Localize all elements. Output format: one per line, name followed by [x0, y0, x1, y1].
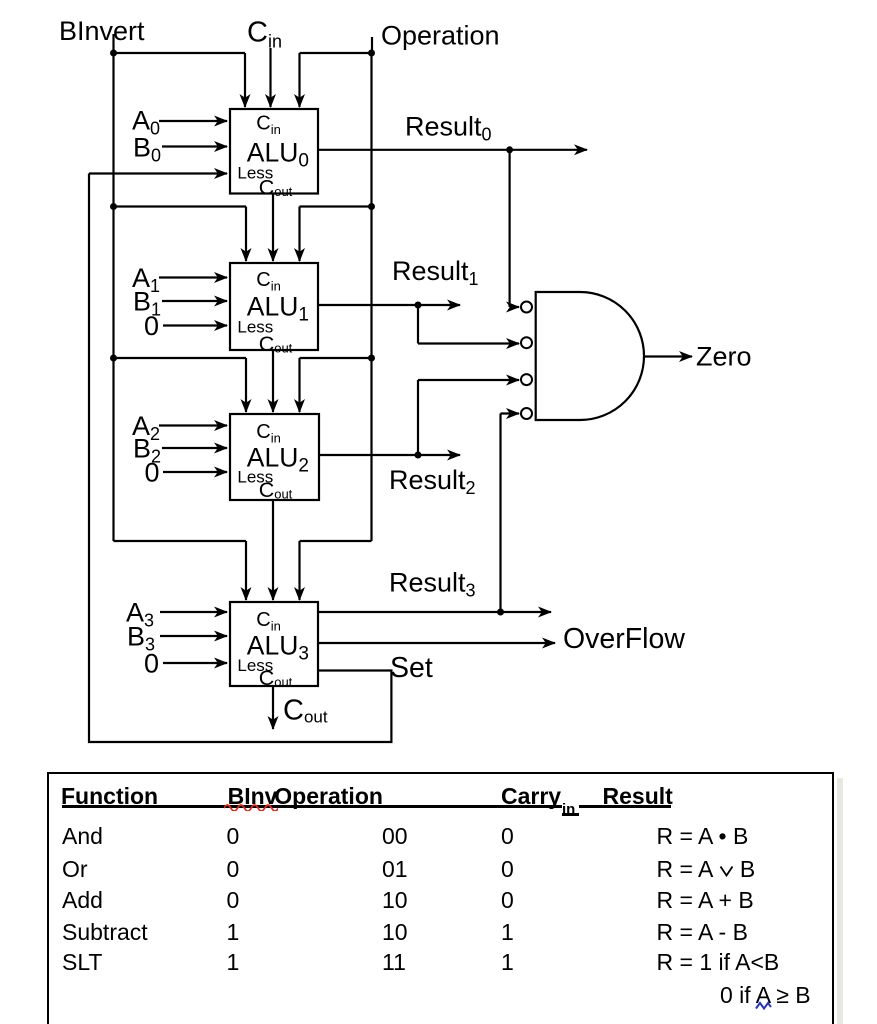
svg-text:Set: Set [390, 652, 433, 684]
svg-text:Result3: Result3 [389, 568, 476, 601]
svg-text:Result0: Result0 [405, 112, 492, 145]
svg-text:Cout: Cout [283, 695, 328, 727]
svg-text:Zero: Zero [696, 342, 752, 372]
svg-text:Operation: Operation [381, 21, 500, 51]
svg-text:OverFlow: OverFlow [563, 623, 685, 655]
svg-text:0: 0 [144, 648, 159, 678]
svg-text:BInvert: BInvert [59, 16, 145, 46]
svg-text:Cin: Cin [247, 16, 282, 51]
svg-text:Result1: Result1 [392, 256, 479, 289]
svg-text:0: 0 [144, 311, 159, 341]
svg-text:Result2: Result2 [389, 465, 476, 498]
svg-text:0: 0 [145, 457, 160, 487]
